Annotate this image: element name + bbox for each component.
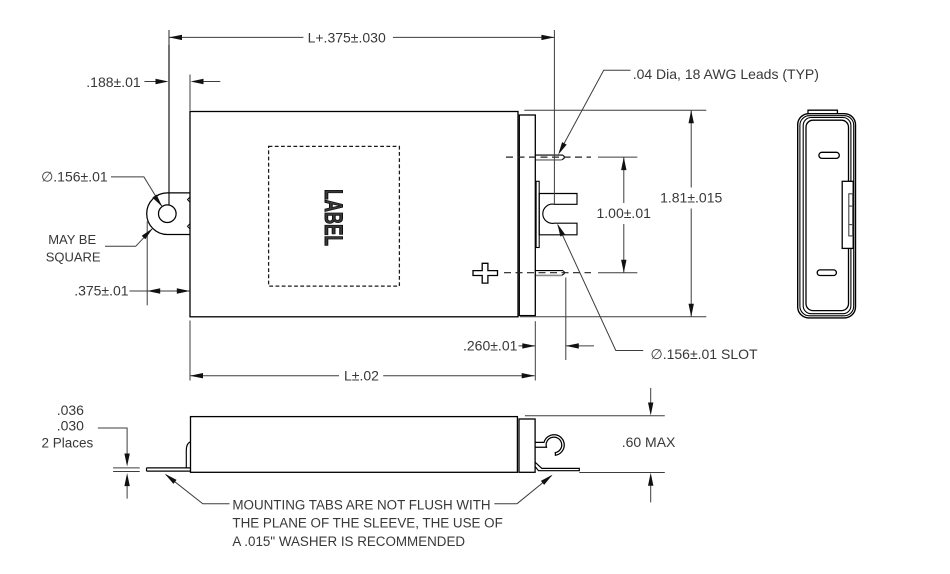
top lead top edge (535, 154, 562, 156)
plus polarity mark (473, 263, 498, 283)
dim .188 shafts (144, 81, 157, 83)
arrows .375 (147, 288, 160, 293)
top tab (808, 110, 837, 114)
dim .375 (130, 290, 190, 292)
arrow note right (541, 475, 553, 485)
ext 1.00 top (598, 156, 637, 158)
note leader right (494, 476, 551, 504)
ext line lead tip (L+.375) (553, 30, 555, 204)
bottom lead tip (562, 270, 565, 275)
tab thickness ext lines (113, 467, 140, 469)
svg-text:THE PLANE OF THE SLEEVE, THE U: THE PLANE OF THE SLEEVE, THE USE OF (232, 516, 502, 531)
svg-text:∅.156±.01 SLOT: ∅.156±.01 SLOT (651, 346, 758, 362)
mounting tab outline (147, 193, 190, 235)
dimension texts front (41, 30, 819, 384)
top lead bottom edge (536, 159, 562, 161)
ext line tab left (L+.375) (168, 30, 170, 45)
ext line body left below (L dim) (189, 321, 191, 381)
arrows L+-.02 (190, 373, 203, 378)
svg-text:SQUARE: SQUARE (46, 249, 101, 264)
texts bottom view (42, 402, 677, 451)
leader may-be-square (105, 228, 153, 246)
arrows 1.81 (689, 110, 694, 123)
sleeve body front view (190, 112, 518, 317)
svg-text:LABEL: LABEL (319, 189, 346, 246)
ext 1.00 bottom (598, 272, 637, 274)
ext .60 bottom (579, 472, 665, 474)
arrowheads bottom view (124, 403, 653, 487)
outer shell line 3 (803, 118, 851, 314)
ext .60 top (525, 415, 665, 417)
leader .156 hole (111, 177, 162, 207)
end cap bottom view (519, 419, 535, 472)
svg-text:MAY BE: MAY BE (48, 232, 96, 247)
svg-text:A .015" WASHER IS RECOMMENDED: A .015" WASHER IS RECOMMENDED (232, 534, 465, 549)
svg-text:2 Places: 2 Places (42, 436, 94, 451)
arrow .036 down (124, 454, 129, 467)
svg-text:.60 MAX: .60 MAX (622, 434, 676, 450)
lead centerline bottom (504, 272, 591, 274)
end cap front view (519, 115, 535, 316)
lower slot (817, 270, 836, 276)
dim 1.00 (623, 157, 625, 203)
inner panel (806, 120, 849, 310)
svg-text:L+.375±.030: L+.375±.030 (308, 30, 386, 46)
dim .260 right part (566, 345, 594, 347)
bottom lead top edge (535, 270, 562, 272)
svg-text:1.81±.015: 1.81±.015 (660, 190, 722, 206)
arrows 1.00 (621, 157, 626, 170)
note leader left (166, 475, 230, 504)
terminal fork (539, 194, 577, 235)
right hook curl (535, 435, 564, 455)
mounting tab strip left edge (168, 30, 170, 205)
leader slot label (558, 225, 643, 351)
dim line L+-.02 (190, 375, 339, 377)
upper slot (819, 152, 839, 158)
svg-text:.260±.01: .260±.01 (463, 338, 518, 354)
leader .04 dia (560, 70, 631, 152)
svg-text:.04 Dia, 18 AWG Leads (TYP): .04 Dia, 18 AWG Leads (TYP) (633, 66, 819, 82)
terminal side view (842, 181, 853, 248)
ext line body left (.188) (189, 75, 191, 111)
top lead tip (562, 155, 565, 160)
right mounting tab (535, 462, 579, 471)
arrowheads front (142, 35, 694, 379)
arrow .60 down (648, 403, 653, 416)
dim .260 left part (519, 345, 536, 347)
ext line tab leftmost (.375) (146, 221, 148, 305)
arrow .188 right (156, 79, 169, 84)
terminal back plate (536, 181, 539, 247)
left tab curl (186, 442, 190, 468)
arrow leader .156 (152, 195, 162, 207)
svg-text:1.00±.01: 1.00±.01 (597, 205, 652, 221)
label area dashed box (269, 146, 400, 286)
arrow leader .04 (558, 142, 566, 155)
ext 1.81 bottom (520, 316, 706, 318)
svg-text:.375±.01: .375±.01 (74, 282, 129, 298)
ext line lead tip (.260) (565, 278, 567, 361)
svg-text:.188±.01: .188±.01 (86, 74, 141, 90)
sleeve body bottom view (191, 417, 518, 473)
outer shell line 2 (800, 116, 854, 316)
arrow .036 up (124, 473, 129, 486)
arrow .188 left (191, 79, 204, 84)
arrows .260 (522, 343, 535, 348)
note text block (232, 497, 502, 549)
arrow leader may-be-square (142, 228, 153, 239)
arrow note left (165, 474, 177, 484)
left mounting tab flat (147, 468, 191, 471)
dim 1.81 (690, 110, 692, 187)
leader .036 (98, 428, 127, 453)
tab hole (159, 205, 177, 223)
ext line cap right below (L dim) (534, 321, 536, 380)
outer shell line 1 (798, 114, 856, 318)
dim line L+.375 (169, 36, 303, 38)
svg-text:.030: .030 (57, 417, 84, 433)
svg-text:.036: .036 (57, 402, 84, 418)
bottom lead bottom edge (536, 274, 562, 276)
lead centerline top (506, 156, 591, 158)
svg-text:∅.156±.01: ∅.156±.01 (41, 168, 108, 184)
arrow L+.375 right (541, 35, 554, 40)
arrow slot leader (557, 224, 565, 237)
dim .60 shafts (650, 388, 652, 403)
terminal inner detail (849, 194, 853, 236)
ext 1.81 top (524, 109, 706, 111)
tab edge break marks (188, 197, 191, 202)
arrow .60 up (648, 473, 653, 486)
svg-text:L±.02: L±.02 (344, 367, 379, 383)
arrow L+.375 left (169, 35, 182, 40)
svg-text:MOUNTING TABS ARE NOT FLUSH WI: MOUNTING TABS ARE NOT FLUSH WITH (232, 497, 490, 512)
